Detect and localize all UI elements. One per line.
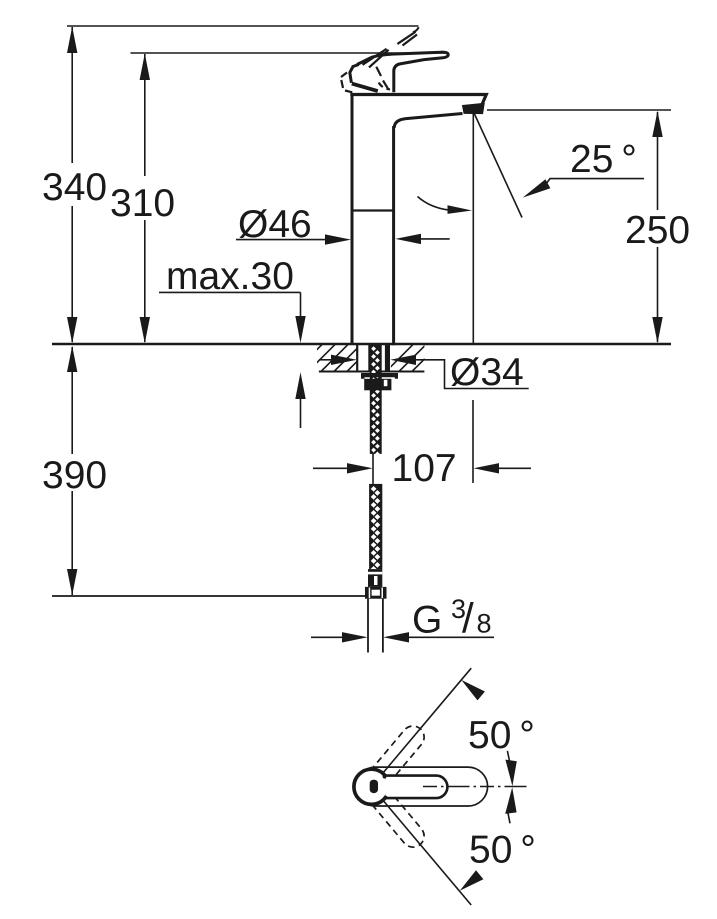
- dimension G 3/8: [311, 636, 343, 638]
- svg-text:50 °: 50 °: [469, 829, 536, 872]
- dimension 390: [71, 347, 73, 595]
- deck hatching left: [295, 344, 375, 372]
- svg-text:max.30: max.30: [166, 255, 294, 298]
- hose connection nut: [365, 587, 387, 599]
- svg-text:390: 390: [42, 454, 107, 497]
- threaded rod with diamonds: [370, 344, 382, 454]
- svg-text:Ø34: Ø34: [450, 351, 524, 394]
- wire 25 deg slanted line: [475, 114, 523, 218]
- washer: [361, 373, 398, 379]
- faucet body joint line: [352, 209, 394, 211]
- bottom view dashed handle down 50: [363, 779, 429, 851]
- leader curved arrow to spout reference: [418, 197, 449, 210]
- shank dark bar: [385, 344, 390, 372]
- bottom view dots: [383, 775, 387, 779]
- bottom view 50 deg lower diagonal: [382, 799, 471, 905]
- dimension 310: [144, 54, 146, 342]
- bottom view handle outer: [356, 767, 488, 806]
- dimension 340: [71, 27, 73, 342]
- rod-to-hose line: [372, 454, 374, 484]
- braided hose: [369, 484, 382, 569]
- deck bottom line: [319, 371, 425, 373]
- wire spout tip reference line 250: [487, 109, 671, 111]
- svg-text:/: /: [462, 595, 474, 642]
- wire bottom reference line 390: [52, 595, 366, 597]
- aerator tip: [463, 103, 485, 113]
- dashed lever raised position: [341, 27, 419, 92]
- mounting hole edge left: [356, 344, 358, 372]
- spout underside: [394, 114, 462, 129]
- 50 deg lower arc arrows: [460, 870, 484, 891]
- wire deck line: [52, 343, 671, 346]
- wire top reference line 340: [67, 25, 419, 27]
- deck hatching right: [386, 344, 440, 372]
- svg-text:340: 340: [42, 166, 107, 209]
- bottom view faucet circle: [354, 769, 389, 804]
- faucet body top and spout: [350, 95, 486, 105]
- lever handle: [357, 52, 448, 92]
- connection tube: [367, 599, 369, 653]
- shank inner edge: [368, 344, 370, 372]
- svg-text:107: 107: [392, 447, 457, 490]
- dimension 107: [313, 467, 348, 469]
- svg-text:G: G: [412, 599, 442, 642]
- lever handle base: [350, 65, 359, 83]
- svg-text:310: 310: [110, 182, 175, 225]
- wire 25 deg vertical reference: [472, 114, 474, 343]
- wire reference line 310: [131, 52, 447, 54]
- bottom view 50 deg upper diagonal: [382, 668, 471, 774]
- svg-text:250: 250: [625, 209, 690, 252]
- faucet body column: [351, 93, 354, 343]
- bottom view center line: [423, 786, 529, 788]
- dimension 250: [657, 112, 659, 342]
- svg-text:25 °: 25 °: [570, 138, 637, 181]
- dimension 25 deg leader: [546, 179, 644, 184]
- 50 deg upper arc arrows: [461, 680, 485, 701]
- bottom view dashed handle up 50: [363, 721, 429, 793]
- dimension D34 leader: [319, 359, 332, 361]
- hose end fitting: [368, 569, 382, 587]
- svg-text:50 °: 50 °: [468, 714, 535, 757]
- bottom view handle inner: [385, 776, 447, 799]
- bottom view blob: [370, 780, 378, 793]
- svg-text:8: 8: [477, 609, 492, 639]
- mounting nut: [364, 379, 391, 391]
